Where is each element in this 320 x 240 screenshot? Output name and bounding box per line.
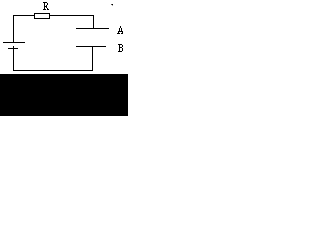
battery BT1 short plate bbox=[8, 48, 18, 49]
wire bottom horizontal bbox=[13, 70, 93, 71]
label A bbox=[117, 26, 123, 34]
label B bbox=[118, 44, 123, 52]
wire top horizontal bbox=[13, 15, 94, 16]
stray dot bbox=[112, 4, 113, 5]
background bbox=[0, 0, 128, 116]
black bottom region bbox=[0, 74, 128, 116]
battery BT1 long plate bbox=[3, 42, 25, 43]
resistor R1 body bbox=[34, 13, 50, 19]
wire right lower vertical bbox=[92, 46, 93, 71]
terminal plate B bbox=[76, 46, 106, 47]
label R bbox=[43, 2, 49, 10]
wire right upper vertical bbox=[93, 15, 94, 29]
terminal plate A bbox=[76, 28, 109, 29]
wire battery bottom vertical bbox=[13, 46, 14, 71]
wire left vertical bbox=[13, 15, 14, 43]
